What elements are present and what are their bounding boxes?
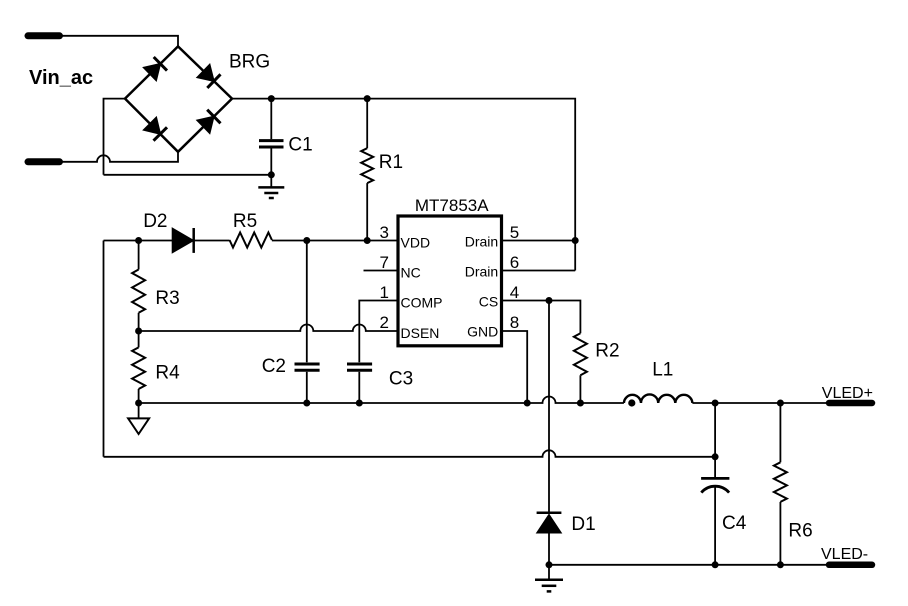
wire top input to bridge top vertex [58, 36, 178, 47]
node C1 bottom [268, 171, 275, 178]
svg-text:8: 8 [510, 313, 519, 332]
ground under D1 [535, 565, 563, 592]
resistor R6 [774, 403, 787, 565]
capacitor C4 [701, 403, 729, 565]
wire bottom input to bridge bottom vertex (hop over vertical at x=103.5) [60, 152, 179, 162]
node C3 bottom [356, 400, 363, 407]
svg-text:R5: R5 [233, 211, 257, 232]
svg-text:Drain: Drain [465, 264, 498, 280]
diode D2 [172, 228, 194, 253]
terminal Vin_ac bottom [28, 158, 60, 165]
svg-text:R4: R4 [155, 363, 180, 384]
wire DSEN row (hops at C2 and COMP verticals) [139, 325, 397, 331]
wire NC stub pin 7 [364, 270, 397, 272]
BRG diode bottom-right [197, 110, 220, 134]
inductor L1 [624, 394, 693, 403]
node D1 anode [546, 561, 553, 568]
svg-text:7: 7 [380, 253, 389, 272]
node Drain5 [572, 237, 579, 244]
wire pin6 Drain to right drop [502, 270, 576, 272]
resistor R2 [574, 333, 587, 375]
node C1 top [268, 95, 275, 102]
svg-text:CS: CS [479, 294, 498, 310]
BRG diode top-right [197, 65, 220, 88]
wire pin8 GND down to rail [502, 331, 528, 403]
terminal VLED+ [829, 400, 872, 407]
wire main rail y=403 (hop at switch node) [139, 397, 624, 403]
wire R5 to VDD pin [272, 240, 397, 242]
node C4 bottom [712, 561, 719, 568]
resistor R4 [132, 331, 145, 403]
IC U1 MT7853A box [398, 216, 502, 346]
resistor R5 [230, 233, 272, 248]
svg-text:GND: GND [467, 324, 498, 340]
wire C2 vertical from VDD row [306, 241, 308, 363]
wire R2 bottom to rail [579, 375, 581, 403]
resistor R3 [132, 241, 145, 332]
node R1 top [364, 95, 371, 102]
svg-text:3: 3 [380, 223, 389, 242]
svg-text:NC: NC [401, 264, 421, 280]
node GND rail [524, 400, 531, 407]
wire switch-node vertical (CS to D1) [548, 301, 550, 513]
svg-text:VDD: VDD [401, 234, 431, 250]
node CS [546, 297, 553, 304]
diode D1 [537, 513, 562, 565]
ground under C1 [258, 175, 284, 198]
svg-text:R3: R3 [155, 288, 179, 309]
wire D2 cathode to R5 [194, 240, 230, 242]
svg-text:R2: R2 [595, 341, 619, 362]
node C4 top rail [712, 400, 719, 407]
wire feedback line (hop at switch node) [104, 450, 716, 456]
svg-text:D2: D2 [143, 211, 167, 232]
svg-text:COMP: COMP [401, 294, 443, 310]
terminal Vin_ac top [28, 32, 60, 39]
wire bridge left vertex to ground rail [104, 99, 126, 175]
wire COMP pin to C3 vertical [359, 301, 396, 363]
wire ground rail to C1 bottom [104, 174, 272, 176]
svg-text:DSEN: DSEN [401, 325, 440, 341]
terminal VLED- [829, 562, 872, 569]
svg-text:Vin_ac: Vin_ac [29, 67, 93, 89]
svg-text:VLED+: VLED+ [822, 385, 873, 402]
node D2/R3 [135, 237, 142, 244]
wire left feedback vertical [103, 241, 105, 457]
svg-text:R6: R6 [788, 521, 812, 542]
svg-text:2: 2 [380, 313, 389, 332]
svg-text:C2: C2 [262, 356, 286, 377]
svg-text:MT7853A: MT7853A [415, 196, 489, 215]
wire VDD row: left corner, D2 anode segment [104, 240, 173, 242]
svg-text:6: 6 [510, 253, 519, 272]
BRG diode bottom-left [144, 117, 167, 140]
wire L1 to VLED+ terminal [692, 402, 828, 404]
node feedback/C4 [712, 453, 719, 460]
capacitor C2 [295, 364, 320, 403]
node R3/R4 DSEN [135, 328, 142, 335]
node R6 bottom [777, 561, 784, 568]
node C2 bottom [303, 400, 310, 407]
ground arrow under R4 [128, 403, 149, 434]
wire bottom rail VLED- [549, 564, 828, 566]
node R2 bottom [577, 400, 584, 407]
node C2 top [303, 237, 310, 244]
svg-text:C3: C3 [389, 369, 413, 390]
capacitor C1 [259, 99, 284, 175]
svg-text:VLED-: VLED- [821, 546, 868, 563]
svg-text:D1: D1 [571, 514, 595, 535]
capacitor C3 [347, 364, 372, 403]
wire pin5 Drain to right drop [502, 240, 576, 242]
node R4 bottom [135, 400, 142, 407]
BRG diode top-left [144, 57, 167, 81]
svg-text:Drain: Drain [465, 234, 498, 250]
bridge rectifier BRG diamond [125, 46, 232, 151]
wire pin4 CS to R2 top [502, 301, 581, 334]
node R6 top [777, 400, 784, 407]
node R1 bottom / VDD [364, 237, 371, 244]
svg-text:R1: R1 [379, 152, 403, 173]
inductor L1 phase dot [628, 399, 635, 406]
svg-text:1: 1 [380, 283, 389, 302]
svg-text:BRG: BRG [229, 51, 270, 72]
svg-text:4: 4 [510, 283, 519, 302]
svg-text:5: 5 [510, 223, 519, 242]
resistor R1 [361, 99, 373, 241]
wire top rail (bridge right vertex to right drop) [232, 99, 575, 271]
svg-text:L1: L1 [652, 359, 673, 380]
svg-text:C4: C4 [722, 513, 747, 534]
svg-text:C1: C1 [288, 135, 312, 156]
